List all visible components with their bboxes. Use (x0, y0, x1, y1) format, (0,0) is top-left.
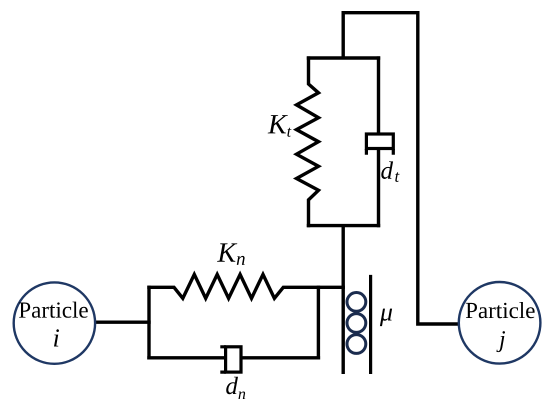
particle j label (466, 302, 535, 318)
wire center feed / slider left plate (342, 224, 345, 374)
slider right plate (369, 275, 372, 374)
label mu (380, 309, 392, 327)
label Kt (268, 115, 292, 137)
dashpot dt rod bottom (377, 149, 380, 227)
wire tangential box top (307, 56, 380, 59)
wire tangential box bottom (307, 224, 380, 227)
spring Kt (297, 56, 319, 227)
wire bottom branch left (147, 356, 225, 359)
particle i symbol (54, 329, 59, 346)
particle j symbol (496, 331, 505, 352)
dashpot dn piston box (226, 347, 241, 372)
particle j circle (459, 282, 541, 364)
dashpot dt rod top (377, 56, 380, 134)
label dt (381, 161, 399, 182)
spring Kn with top branch wire (147, 274, 345, 298)
roller circle 3 (347, 335, 366, 354)
label dn (226, 377, 245, 399)
wire from particle i (95, 321, 151, 324)
roller circle 2 (347, 314, 366, 333)
roller circle 1 (347, 293, 366, 312)
dashpot dn cup stubs (220, 347, 226, 372)
wire top loop to particle j (343, 13, 459, 324)
dashpot dt cup stubs (366, 149, 393, 155)
wire normal box right (317, 286, 320, 360)
label Kn (217, 243, 245, 265)
particle i label (19, 302, 88, 318)
dashpot dt piston box (366, 134, 393, 149)
wire bottom branch right (242, 356, 320, 359)
wire normal box left (147, 286, 150, 360)
particle i circle (14, 282, 95, 363)
